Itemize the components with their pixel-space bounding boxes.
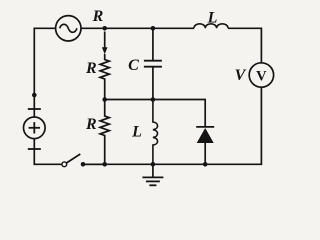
svg-text:V: V [256,68,267,84]
node: inductor branch / bottom wire junction [151,162,156,167]
wire: bottom horizontal right section [85,163,261,165]
diode D [196,127,214,164]
svg-text:R: R [92,8,104,25]
capacitor C [144,28,162,99]
AC source [56,16,81,41]
node: resistor branch / bottom wire junction [102,162,107,167]
inductor L (top, horizontal) [194,24,228,29]
svg-text:V: V [235,67,247,84]
wire: left rail lower (battery bottom to bottom-left corner) [33,139,35,166]
switch (open, SPST) [34,154,104,167]
current arrow on resistor branch [102,32,108,55]
wire: right rail upper (corner down to voltmeter) [260,28,262,64]
resistor R2 (lower) zigzag [100,100,109,165]
node: junction at top of capacitor branch [151,26,156,31]
svg-text:R: R [85,60,97,77]
battery / DC source [24,109,46,149]
wire: middle horizontal bus (top of lower box) [105,99,206,101]
wire: top-left horizontal from left rail to AC source [34,27,55,29]
voltmeter V [249,63,273,87]
wire: top-right horizontal from inductor to right rail [228,27,261,29]
wire: right rail lower (voltmeter to bottom-right corner) [260,87,262,165]
node: junction at top of resistor branch R [102,26,107,31]
node: terminal dot on left rail [32,93,37,98]
ground [142,164,163,185]
wire: left rail upper (top-left corner down to battery top) [33,28,35,118]
svg-text:L: L [207,10,218,27]
inductor L2 (lower, vertical) [153,100,158,165]
svg-text:L: L [131,124,142,141]
diode branch wire (down from middle bus) [204,99,206,127]
wire: top horizontal from AC source to inductor L [81,27,194,29]
resistor R1 (upper) zigzag [100,54,109,100]
node: junction middle bus / inductor branch [151,97,156,102]
node: diode branch / bottom wire junction [203,162,208,167]
node: junction middle bus / resistor branch [102,97,107,102]
svg-text:C: C [128,57,139,74]
svg-text:R: R [85,116,97,133]
